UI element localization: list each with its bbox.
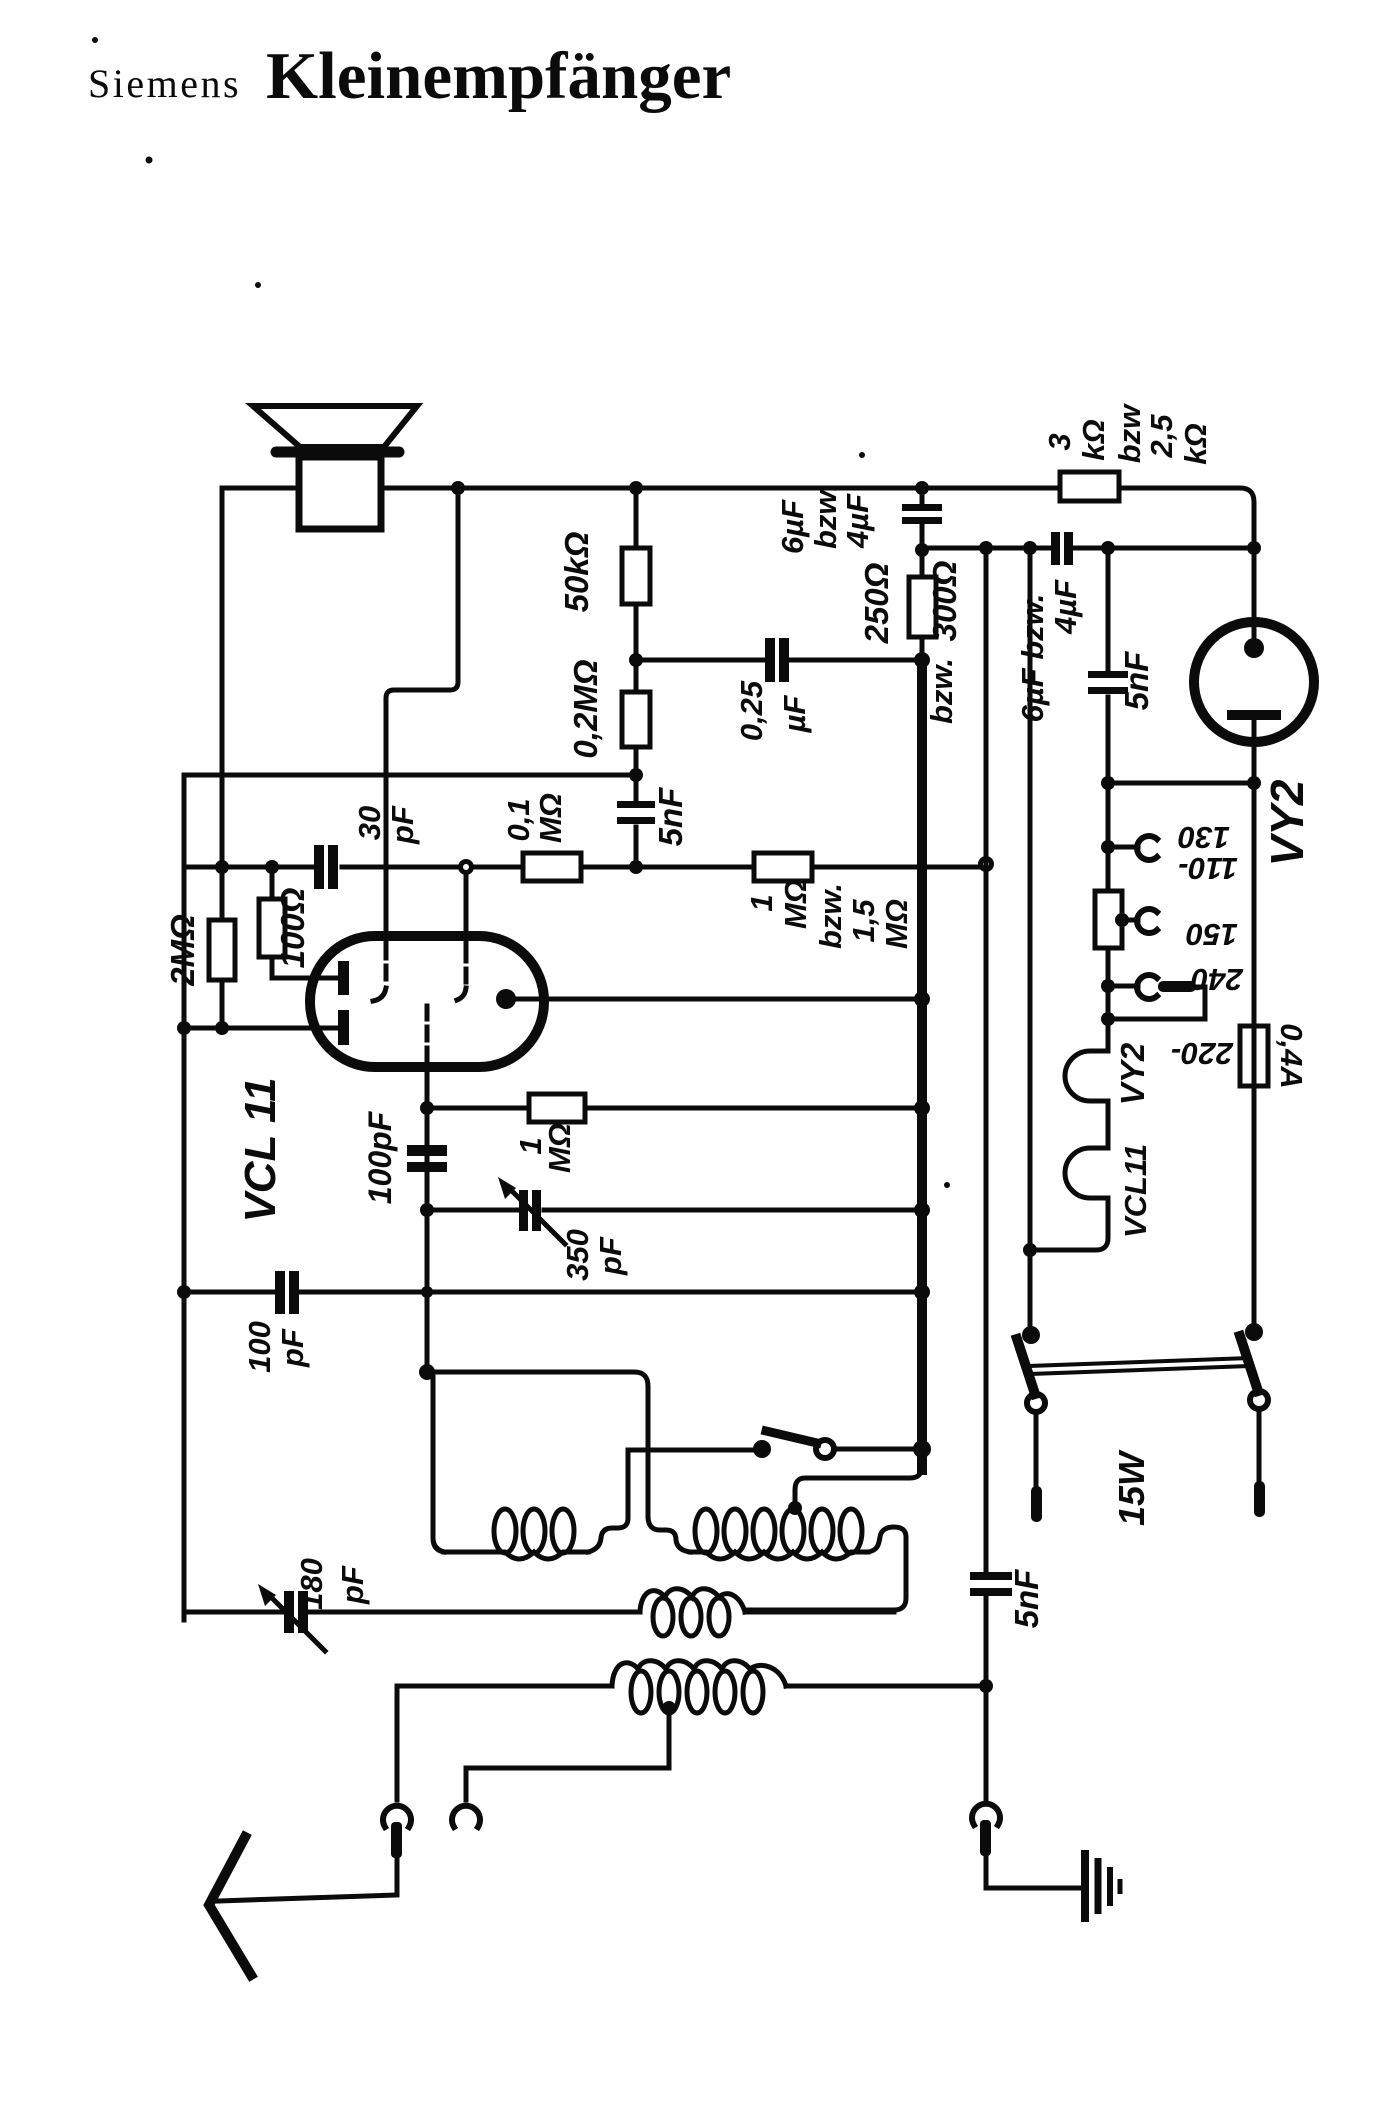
svg-text:100Ω: 100Ω <box>274 887 311 968</box>
node antenna line / bus A <box>979 1679 993 1693</box>
node bus548 / 5nF drop <box>1101 541 1115 555</box>
resistor 1MΩ bzw 1,5MΩ <box>754 853 812 881</box>
resistor 0,2MΩ <box>622 660 650 775</box>
svg-text:MΩ: MΩ <box>542 1123 577 1173</box>
node tap 110-130 <box>1101 840 1115 854</box>
resistor mains dropper <box>1095 891 1122 948</box>
svg-text:kΩ: kΩ <box>1178 423 1213 464</box>
terminal earth plug pin <box>980 1820 991 1856</box>
label 6µF bzw 4µF series <box>1015 579 1083 722</box>
electrode cathode bar1 <box>338 961 349 995</box>
node grid coil top <box>419 1364 435 1380</box>
wire antenna coil tap to terminal 2 <box>466 1708 669 1800</box>
electrode cathode bar2 <box>338 1010 349 1045</box>
terminal earth cup <box>972 1804 1000 1825</box>
svg-text:0,4A: 0,4A <box>1274 1023 1309 1088</box>
node antenna coil tap <box>662 1701 676 1715</box>
node terminal on bus A <box>981 859 992 870</box>
svg-text:5nF: 5nF <box>652 787 689 847</box>
electrode grid3 dashes <box>425 1006 430 1068</box>
wire 100pF line y1292 <box>184 1290 922 1295</box>
node bus548 left <box>915 543 929 557</box>
svg-text:bzw.: bzw. <box>813 883 848 949</box>
svg-text:VY2: VY2 <box>1261 779 1313 866</box>
label 100pF antenna <box>242 1321 310 1373</box>
label 6µF bzw 4µF <box>775 483 875 554</box>
svg-text:kΩ: kΩ <box>1076 419 1111 460</box>
scan speck <box>255 282 261 288</box>
wire earth to ground <box>986 1856 1082 1888</box>
node cathode / 2MΩ <box>215 1021 229 1035</box>
coil antenna winding <box>397 1661 986 1713</box>
ground symbol <box>1085 1850 1120 1922</box>
node bus548 / VY2 drop <box>1247 541 1261 555</box>
title Kleinempfänger <box>266 38 731 115</box>
label 0,25µF <box>734 680 812 741</box>
node coil tap anode coil <box>788 1501 802 1515</box>
wire top rail main segment <box>381 486 1060 491</box>
terminal tap 240 with plug <box>1108 975 1205 1019</box>
resistor 50kΩ <box>622 488 650 660</box>
capacitor 350pF trimmer <box>498 1177 565 1244</box>
svg-text:4µF: 4µF <box>840 493 875 549</box>
title Siemens <box>88 60 241 107</box>
resistor 3kΩ bzw 2,5kΩ <box>1060 472 1119 501</box>
node grid3 / 350pF line <box>420 1203 434 1217</box>
node 100pF line / left rail <box>177 1285 191 1299</box>
scan speck <box>146 157 153 164</box>
svg-text:3: 3 <box>1042 433 1077 450</box>
resistor 0,1MΩ <box>523 853 581 881</box>
electrode grid1 hook <box>373 988 386 1001</box>
svg-text:0,2MΩ: 0,2MΩ <box>567 659 604 758</box>
antenna arrow <box>209 1837 251 1975</box>
wire bold rail to coil tap <box>795 1466 922 1506</box>
svg-text:MΩ: MΩ <box>879 899 914 949</box>
wire anode to bold rail <box>515 997 922 1002</box>
svg-text:1,5: 1,5 <box>846 899 881 943</box>
wire grid coil left box <box>588 1450 628 1552</box>
svg-text:4µF: 4µF <box>1048 579 1083 635</box>
label 1MΩ bzw 1,5MΩ <box>744 879 914 949</box>
node heater feed / VY2 cathode <box>1247 776 1261 790</box>
svg-text:2,5: 2,5 <box>1144 414 1179 459</box>
terminal antenna 1 cup <box>383 1806 411 1827</box>
capacitor 180pF trimmer <box>258 1584 325 1651</box>
electrode grid2 dashes <box>464 948 469 988</box>
capacitor 100pF grid <box>407 1145 447 1172</box>
wire HT bus y548 <box>922 546 1254 551</box>
wire 180pF to osc coil <box>308 1610 640 1615</box>
wire left rail bottom corner <box>184 1610 284 1615</box>
svg-text:100pF: 100pF <box>362 1110 398 1204</box>
svg-text:240: 240 <box>1191 962 1244 997</box>
wire bold HT rail <box>917 660 927 1470</box>
capacitor 5nF antenna <box>970 1572 1012 1596</box>
scan speck <box>859 452 865 458</box>
electrode grid1 dashes <box>384 945 389 986</box>
terminal antenna 2 cup <box>452 1806 480 1827</box>
node 0,2M / AVC line <box>629 768 643 782</box>
label 0,1MΩ <box>501 793 568 843</box>
wire cathode line y1028 <box>184 1026 337 1031</box>
wire grid coil top link <box>427 1372 648 1516</box>
svg-text:VCL 11: VCL 11 <box>236 1077 285 1222</box>
wire 0,25µF line <box>636 658 922 663</box>
coil oscillator winding <box>640 1589 745 1636</box>
wire grid3 below tube <box>425 1068 430 1372</box>
terminal tap 150 <box>1122 909 1157 933</box>
svg-text:bzw.: bzw. <box>808 483 843 549</box>
wire top rail left segment <box>222 486 299 491</box>
node 1MΩ line / bold rail <box>914 1100 930 1116</box>
terminal tap 110-130 <box>1108 836 1157 860</box>
node tap 150 <box>1115 913 1129 927</box>
node 5nF / grid line <box>629 860 643 874</box>
svg-text:pF: pF <box>593 1236 628 1276</box>
node grid2 tap <box>461 862 472 873</box>
wire bus A upper <box>984 548 989 864</box>
svg-text:pF: pF <box>335 1565 370 1605</box>
resistor 250Ω bzw 300Ω <box>909 548 936 660</box>
wire bus B <box>1028 548 1033 1328</box>
wire reaction coil entry <box>648 1516 690 1552</box>
svg-text:0,25: 0,25 <box>734 680 769 741</box>
label 30pF <box>352 805 420 845</box>
fuse 0,4A <box>1240 783 1268 1328</box>
wire heater feed y783 <box>1108 781 1254 786</box>
svg-text:1: 1 <box>744 894 779 911</box>
node 50k / 0,25µF line <box>629 653 643 667</box>
node bus548 / bus A <box>979 541 993 555</box>
node 100pF line / grid3 <box>421 1286 433 1298</box>
wire bus A lower <box>984 864 989 1800</box>
node 30pF line / 2MΩ <box>215 860 229 874</box>
capacitor 30pF <box>314 845 338 889</box>
node switch / bold rail <box>913 1440 931 1458</box>
node heater return / bus B <box>1023 1243 1037 1257</box>
svg-text:300Ω: 300Ω <box>926 560 963 641</box>
svg-text:110-: 110- <box>1178 851 1238 886</box>
resistor 2MΩ <box>209 920 235 980</box>
terminal antenna 1 plug pin <box>391 1822 402 1858</box>
svg-text:pF: pF <box>385 805 420 845</box>
heater VY2 filament <box>1065 1051 1108 1148</box>
label 1MΩ grid leak <box>513 1123 577 1173</box>
wire grid bias line y867 <box>184 865 980 870</box>
svg-text:bzw: bzw <box>1112 403 1147 463</box>
svg-text:5nF: 5nF <box>1008 1569 1045 1629</box>
svg-text:150: 150 <box>1186 917 1238 952</box>
node 30pF line / 100Ω <box>265 860 279 874</box>
switch mains pole 1 <box>1017 1326 1045 1522</box>
wire speaker-left drop x222 <box>220 488 225 1028</box>
wire antenna lead-in <box>395 1686 400 1800</box>
scan speck <box>92 37 98 43</box>
electrode grid2 hook <box>457 988 466 1000</box>
tube VY2 rectifier <box>1194 622 1314 783</box>
capacitor 5nF smoothing <box>1088 548 1128 783</box>
svg-text:100: 100 <box>242 1321 277 1373</box>
capacitor 100pF antenna <box>275 1271 299 1314</box>
node top-wire / 50k chain <box>629 481 643 495</box>
electrode anode dot <box>496 989 516 1009</box>
heater VCL11 filament <box>1030 1148 1108 1250</box>
wire AVC line y775 <box>184 773 636 778</box>
svg-text:15W: 15W <box>1111 1449 1152 1526</box>
svg-text:MΩ: MΩ <box>778 879 813 929</box>
svg-text:250Ω: 250Ω <box>858 562 895 644</box>
svg-text:pF: pF <box>275 1328 310 1368</box>
svg-text:bzw.: bzw. <box>924 658 959 724</box>
label 3kΩ bzw 2,5kΩ <box>1042 403 1213 465</box>
wire grid coil left side <box>433 1372 444 1552</box>
wire selector chain <box>1106 783 1111 1051</box>
svg-text:50kΩ: 50kΩ <box>558 531 595 612</box>
svg-text:VCL11: VCL11 <box>1118 1144 1153 1238</box>
capacitor 0,25µF <box>765 638 789 682</box>
capacitor 6µF bzw 4µF series <box>1051 532 1073 565</box>
node tap 220 <box>1101 1012 1115 1026</box>
node cathode / left rail <box>177 1021 191 1035</box>
node anode / bold rail <box>914 991 930 1007</box>
wire left rail x184 <box>182 775 187 1620</box>
loudspeaker LS <box>253 406 417 529</box>
coil reaction winding <box>690 1509 868 1559</box>
coil grid winding <box>444 1509 588 1559</box>
wire reaction coil exit to osc link <box>745 1527 906 1610</box>
wire grid1 drop from top rail <box>386 488 458 945</box>
node grid3 / 1MΩ line <box>420 1101 434 1115</box>
node top-wire / grid drop <box>451 481 465 495</box>
wire 3kΩ to VY2 anode <box>1119 488 1254 640</box>
node heater feed / selector <box>1101 776 1115 790</box>
switch coupling bar <box>1028 1358 1251 1374</box>
resistor 100Ω <box>259 867 337 978</box>
svg-text:VY2: VY2 <box>1114 1042 1151 1105</box>
switch reaction on-off <box>628 1431 922 1458</box>
svg-text:5nF: 5nF <box>1118 651 1155 711</box>
scan speck <box>944 1182 950 1188</box>
svg-text:0,1: 0,1 <box>501 798 536 841</box>
svg-text:30: 30 <box>352 806 387 840</box>
svg-text:220-: 220- <box>1171 1036 1234 1071</box>
switch mains pole 2 <box>1240 1323 1268 1517</box>
wire 1MΩ line y1108 <box>427 1106 922 1111</box>
node top-wire / output cap <box>915 481 929 495</box>
capacitor 5nF coupling <box>617 775 655 867</box>
node 100pF line / bold rail <box>914 1284 930 1300</box>
node 0,25µF / bold rail <box>914 652 930 668</box>
wire antenna to arrow <box>218 1858 397 1901</box>
svg-text:180: 180 <box>294 1558 329 1610</box>
svg-text:350: 350 <box>560 1229 595 1281</box>
node bus548 / bus B <box>1023 541 1037 555</box>
wire 350pF line y1210 <box>427 1208 922 1213</box>
label 350pF <box>560 1229 628 1281</box>
electrode grid2 lead <box>464 874 469 948</box>
svg-text:6µF: 6µF <box>775 499 810 554</box>
node tap 240 <box>1101 979 1115 993</box>
capacitor 6µF bzw 4µF output <box>902 488 942 548</box>
svg-text:MΩ: MΩ <box>533 793 568 843</box>
svg-text:µF: µF <box>777 695 812 734</box>
svg-text:130: 130 <box>1178 820 1230 855</box>
resistor 1MΩ grid leak <box>529 1094 585 1122</box>
wire osc coil to reaction coil <box>745 1610 894 1615</box>
label 180pF <box>294 1558 370 1610</box>
tube VCL11 envelope <box>310 936 544 1067</box>
node 350pF line / bold rail <box>914 1202 930 1218</box>
